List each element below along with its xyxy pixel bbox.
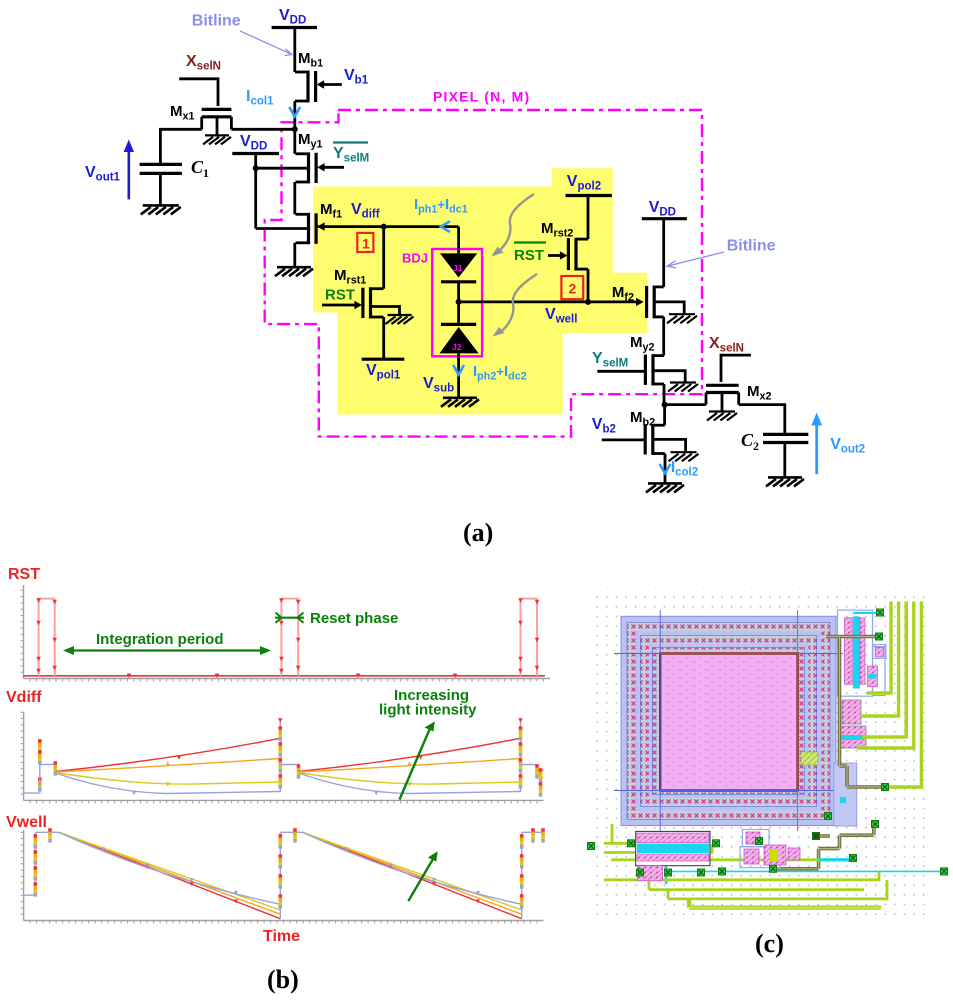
caption (c) (755, 929, 784, 958)
label Vpol1 (366, 362, 401, 382)
label YselM 2 (592, 350, 628, 370)
label YselM 1 (333, 143, 369, 165)
wire J2 to Vsub (457, 353, 460, 396)
label VDD 3 (649, 199, 676, 219)
ground Mx1 bulk (203, 135, 231, 144)
caption (b) (267, 965, 299, 994)
wire VDD to Mb1 drain (293, 28, 296, 73)
wire Mf2 bulk (654, 302, 684, 313)
bitline pointer arrow 1 (240, 31, 292, 56)
wire XselN to Mx1 gate (179, 79, 218, 106)
terminal Vpol1 (362, 358, 405, 361)
annotation increasing arrow 1 (400, 721, 435, 799)
label Vpol2 (567, 173, 601, 193)
label My2 (630, 334, 655, 353)
label BDJ (402, 251, 428, 266)
pixel boundary PIXEL (N,M) (265, 110, 702, 437)
label XselN 1 (186, 53, 221, 73)
annotation Increasing light intensity (379, 687, 477, 719)
yellow highlight region (313, 168, 647, 414)
label C1 (191, 157, 209, 180)
ground C1 (141, 205, 181, 214)
svg-text:RST: RST (514, 247, 544, 264)
label Mf2 (612, 284, 634, 303)
power VDD rail 2 (232, 152, 279, 155)
ground Mx2 bulk (707, 412, 737, 421)
wire VDD3 to Mf2 drain (662, 219, 665, 287)
node VDD2 bulk (253, 165, 259, 171)
wire Vdiff net (316, 222, 459, 230)
wire Vpol2 to Mrst2 (587, 196, 590, 240)
transistor Mb1 (295, 71, 342, 103)
label Mb2 (630, 409, 655, 428)
label RST 2 with overline (514, 243, 546, 265)
label Vwell (545, 306, 577, 326)
annotation Reset phase (275, 610, 398, 627)
label Vsub (423, 375, 454, 395)
svg-text:J2: J2 (452, 342, 462, 352)
annotation Integration period (96, 631, 224, 648)
wire Mb2 bulk (653, 439, 686, 451)
capacitor C2 (763, 434, 808, 476)
RST trace (24, 598, 546, 678)
transistor Mrst2 (548, 238, 588, 271)
node Vwell (456, 299, 462, 305)
ground Mb2 bulk (669, 452, 699, 461)
wire Mx2 to C2 (739, 405, 785, 433)
svg-text:(c): (c) (755, 929, 784, 958)
wire Vwell net (459, 300, 637, 303)
ground Mf2 bulk (667, 314, 697, 323)
svg-text:Bitline: Bitline (192, 13, 241, 30)
node bitline 1 (292, 126, 298, 132)
node Vdiff (381, 224, 387, 230)
label Vout1 (85, 164, 121, 184)
svg-text:Reset phase: Reset phase (310, 610, 398, 627)
wire bitline node to My1 (293, 129, 296, 154)
wire Vdiff to J1 (457, 227, 460, 254)
svg-text:1: 1 (203, 166, 209, 180)
wire Mf1 source to ground (293, 243, 296, 266)
label RST 1 (325, 287, 355, 304)
Vwell trace (24, 828, 545, 919)
svg-text:light intensity: light intensity (379, 702, 477, 719)
IC layout panel (c) (588, 588, 948, 918)
wire My1 to Mf1 (293, 182, 296, 214)
label Vwell waveform (6, 814, 47, 831)
label Vb1 (344, 67, 369, 87)
label Vdiff waveform (6, 689, 42, 706)
power VDD rail 3 (642, 217, 687, 220)
wire Vdiff to Mrst1 drain (382, 227, 385, 289)
wire node to Mb2 drain (663, 405, 666, 426)
terminal Vpol2 (566, 194, 612, 197)
bitline pointer arrow 2 (667, 252, 724, 268)
wire Mb2 source to ground (664, 454, 667, 483)
svg-text:BDJ: BDJ (402, 251, 428, 266)
svg-text:2: 2 (569, 281, 577, 297)
annotation increasing arrow 2 (408, 851, 437, 901)
svg-text:Time: Time (263, 928, 300, 945)
label Mx1 (170, 103, 195, 122)
label VDD 1 (279, 7, 306, 27)
svg-text:2: 2 (753, 439, 759, 453)
gray arrow to J1 (492, 194, 535, 257)
label Mf1 (320, 201, 342, 220)
label My1 (298, 131, 323, 150)
node Mrst2-Vwell (585, 299, 591, 305)
transistor Mx1 (202, 109, 232, 134)
ground C2 (766, 477, 804, 486)
svg-text:1: 1 (362, 236, 370, 252)
transistor Mf1 (296, 213, 317, 244)
wire Mrst2 source to Vwell (587, 269, 590, 302)
wire Mrst1 bulk (371, 307, 400, 315)
label Bitline 2 (727, 238, 776, 255)
svg-text:Vdiff: Vdiff (6, 689, 42, 706)
red box 2 (561, 276, 583, 299)
transistor Mf2 (636, 286, 664, 319)
wire Mx1 to bitline node (231, 128, 294, 131)
label Bitline 1 (192, 13, 241, 30)
current arrow Iph2 (453, 365, 464, 375)
Vdiff trace (24, 718, 544, 796)
transistor Mrst1 (322, 287, 384, 318)
wire My2 source to node (663, 384, 666, 405)
wire J1 to node (457, 282, 460, 302)
label Mx2 (747, 383, 772, 402)
wire XselN2 to Mx2 gate (721, 355, 751, 382)
svg-text:Integration period: Integration period (96, 631, 224, 648)
svg-text:Vwell: Vwell (6, 814, 47, 831)
label Vout2 (830, 436, 865, 456)
arrow Vout1 (124, 140, 134, 200)
label Mb1 (298, 50, 323, 69)
wire My2 bulk (653, 371, 685, 382)
wire Mx1 to C1 (160, 129, 201, 163)
node column 2 (662, 402, 668, 408)
ground Vsub (441, 398, 479, 407)
transistor My2 (597, 354, 664, 385)
current arrow Icol2 (660, 464, 671, 473)
label Time (263, 928, 300, 945)
current arrow Icol1 (289, 107, 300, 117)
annotation integration arrow (63, 646, 271, 655)
arrow Vout2 (811, 413, 822, 475)
svg-text:(b): (b) (267, 965, 299, 994)
label PIXEL (N, M) (433, 89, 530, 105)
diode J1 (440, 253, 477, 281)
ground Mf1 source (275, 267, 313, 276)
label RST waveform (8, 566, 40, 583)
label C2 (741, 430, 759, 453)
transistor Mx2 (706, 385, 739, 410)
red box 1 (357, 233, 373, 252)
transistor Mb2 (602, 424, 665, 455)
label Mrst1 (334, 267, 366, 286)
label XselN 2 (709, 335, 744, 355)
svg-text:J1: J1 (453, 263, 463, 273)
svg-text:RST: RST (325, 287, 355, 304)
label Mrst2 (541, 220, 573, 239)
axes Vdiff panel (21, 712, 544, 803)
BDJ outline box (432, 249, 482, 356)
wire node to Mx2 (665, 403, 706, 406)
ground My2 bulk (668, 383, 698, 392)
caption (a) (463, 518, 493, 547)
svg-text:(a): (a) (463, 518, 493, 547)
label Iph1+Idc1 (414, 196, 468, 215)
label Vdiff (351, 201, 380, 221)
svg-text:Bitline: Bitline (727, 238, 776, 255)
transistor My1 (296, 152, 345, 183)
label Iph2+Idc2 (473, 363, 527, 382)
power VDD rail 1 (272, 26, 317, 29)
svg-text:PIXEL (N, M): PIXEL (N, M) (433, 89, 530, 105)
label VDD 2 (240, 133, 267, 153)
label Icol1 (246, 88, 274, 108)
svg-text:RST: RST (8, 566, 40, 583)
wire Mf2 source to My2 (662, 317, 665, 356)
wire node to J2 (457, 302, 460, 325)
diode J2 (440, 324, 479, 353)
ground Icol2 (646, 483, 684, 492)
label Vb2 (592, 416, 616, 436)
wire VDD2 to Mf1 bulk (256, 168, 308, 228)
axes Vwell panel (21, 830, 544, 924)
gray arrow to J2 (493, 274, 538, 337)
label Icol2 (671, 459, 698, 479)
axes RST panel (21, 585, 551, 682)
wire VDD2 down (254, 154, 257, 169)
wire Mb1 source to bitline node (293, 101, 296, 129)
wire Mrst1 source to Vpol1 (382, 317, 385, 359)
ground Mrst1 bulk (386, 315, 414, 324)
wire VDD2 to My1 bulk (256, 167, 308, 170)
capacitor C1 (140, 164, 182, 204)
current arrow Iph1 (441, 221, 450, 232)
